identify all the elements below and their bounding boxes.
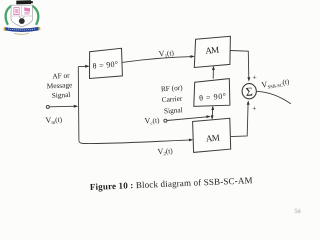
- svg-text:Σ: Σ: [245, 84, 253, 98]
- arrowhead: V2 into AM2: [189, 139, 193, 142]
- arrowhead: Vm wire into bus: [74, 105, 78, 108]
- svg-text:54: 54: [295, 209, 301, 215]
- shield emblem left: [14, 8, 19, 15]
- wire: vertical bus from phase shifter feed down to bottom wire: [77, 67, 80, 141]
- svg-text:Message: Message: [47, 80, 73, 90]
- phase shifter P2 box: [194, 79, 230, 107]
- wreath right: [32, 6, 39, 25]
- arrowhead: carrier down into AM2 top: [211, 115, 214, 119]
- arrowhead: carrier up into P2 bottom: [211, 106, 214, 110]
- arrowhead: P2 output into AM1 bottom: [212, 66, 215, 70]
- arrowhead: Vc wire into carrier bus: [206, 115, 210, 118]
- node Vc input terminal: [164, 119, 167, 122]
- arrowhead: AM1 output down into summer top: [247, 77, 250, 81]
- banner text dashes: [8, 29, 36, 30]
- wire: Vc terminal to carrier bus: [167, 117, 209, 121]
- shield: [11, 5, 33, 27]
- wire: Vm terminal to vertical bus: [49, 105, 76, 108]
- wire: V1 from P1 to AM1: [123, 57, 193, 63]
- arrowhead: into P1: [85, 65, 89, 68]
- svg-text:RF (or): RF (or): [161, 83, 184, 94]
- wire: carrier bus between P2 and AM2: [211, 107, 214, 118]
- node Vm input terminal: [46, 105, 49, 108]
- arrowhead: AM2 output up into summer bottom: [247, 100, 250, 104]
- wire: P2 output up into AM1: [212, 68, 214, 78]
- wire: bus top corner into phase shifter P1: [78, 65, 87, 67]
- banner ribbon: [5, 27, 39, 32]
- svg-text:+: +: [252, 104, 256, 113]
- wreath left: [6, 6, 12, 25]
- shield circle: [19, 18, 25, 24]
- svg-text:Signal: Signal: [51, 90, 70, 100]
- svg-text:AM: AM: [205, 133, 220, 144]
- summer U1: [242, 84, 256, 99]
- wire: AM1 output right then down to summer: [230, 51, 249, 80]
- shield inner V emblem: [19, 17, 24, 20]
- shield emblem right: [24, 7, 30, 11]
- svg-text:AF or: AF or: [52, 71, 70, 81]
- arrowhead: V1 into AM1: [190, 55, 194, 58]
- AM modulator 1 box: [194, 36, 230, 67]
- lower ribbon: [14, 33, 29, 34]
- label RF (or) Carrier Signal: [161, 83, 185, 116]
- phase shifter P1 box: [90, 48, 123, 78]
- wire: summer output curve: [256, 91, 290, 104]
- college logo: [3, 0, 40, 34]
- svg-text:Signal: Signal: [164, 105, 183, 115]
- AM modulator 2 box: [193, 118, 231, 152]
- label AF or Message Signal: [46, 71, 73, 100]
- wire: AM2 output right then up to summer: [231, 103, 248, 137]
- graduation cap: [16, 0, 31, 4]
- wire: long bottom wire V2 to AM2: [79, 140, 191, 144]
- svg-text:Carrier: Carrier: [161, 94, 183, 104]
- svg-text:+: +: [253, 72, 257, 81]
- svg-text:AM: AM: [205, 45, 220, 56]
